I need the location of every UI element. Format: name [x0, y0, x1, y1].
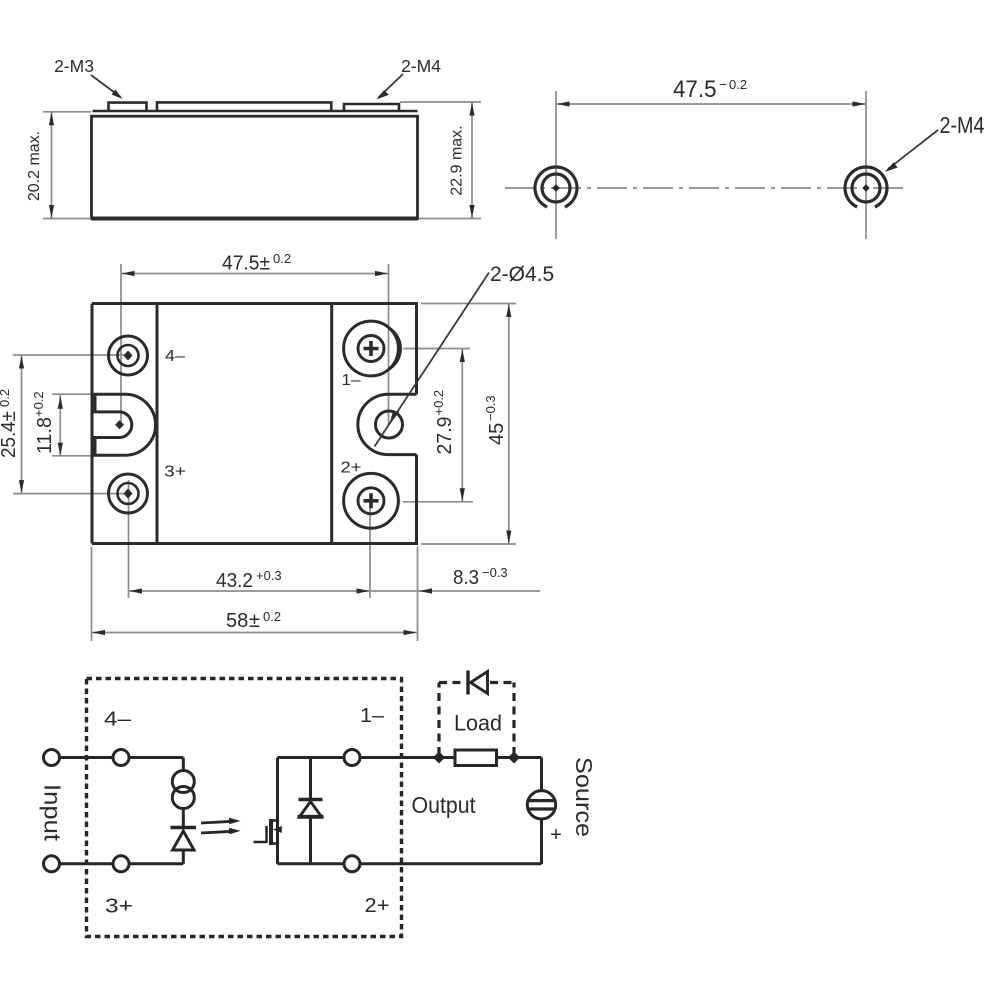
svg-text:2+: 2+ [341, 460, 362, 477]
svg-text:43.2: 43.2 [216, 570, 253, 592]
svg-text:0.2: 0.2 [0, 389, 12, 407]
svg-text:47.5±: 47.5± [222, 253, 270, 275]
svg-text:3+: 3+ [164, 464, 186, 481]
svg-text:27.9: 27.9 [434, 417, 456, 455]
svg-text:22.9 max.: 22.9 max. [449, 125, 466, 195]
svg-text:1–: 1– [342, 372, 361, 389]
svg-text:Load: Load [454, 711, 502, 736]
svg-text:0.2: 0.2 [263, 609, 281, 624]
svg-text:−: − [719, 76, 727, 92]
svg-text:0.2: 0.2 [273, 251, 291, 266]
svg-text:2+: 2+ [365, 895, 390, 917]
svg-text:Source: Source [571, 757, 597, 837]
svg-text:8.3: 8.3 [453, 567, 479, 589]
svg-text:+: + [550, 824, 562, 846]
svg-text:−0.3: −0.3 [483, 395, 498, 421]
svg-text:58: 58 [226, 610, 248, 632]
svg-text:1–: 1– [360, 705, 385, 727]
svg-text:11.8: 11.8 [34, 417, 56, 454]
svg-text:25.4±: 25.4± [0, 411, 20, 458]
svg-text:+0.2: +0.2 [31, 391, 46, 417]
svg-text:20.2 max.: 20.2 max. [26, 131, 43, 201]
svg-text:4–: 4– [104, 709, 132, 731]
svg-text:2-M4: 2-M4 [940, 112, 985, 138]
svg-text:2-M3: 2-M3 [54, 56, 94, 76]
svg-text:+0.3: +0.3 [256, 568, 282, 583]
svg-text:+0.2: +0.2 [431, 390, 446, 416]
svg-text:2-Ø4.5: 2-Ø4.5 [490, 263, 554, 286]
svg-text:0.2: 0.2 [729, 77, 747, 92]
svg-text:47.5: 47.5 [673, 76, 717, 103]
svg-text:3+: 3+ [105, 896, 133, 918]
svg-text:−0.3: −0.3 [482, 565, 508, 580]
svg-text:±: ± [249, 610, 260, 632]
svg-text:Input: Input [40, 784, 66, 842]
svg-text:Output: Output [412, 792, 477, 818]
svg-text:2-M4: 2-M4 [401, 56, 441, 76]
svg-text:45: 45 [486, 423, 508, 445]
svg-text:4–: 4– [165, 348, 185, 365]
